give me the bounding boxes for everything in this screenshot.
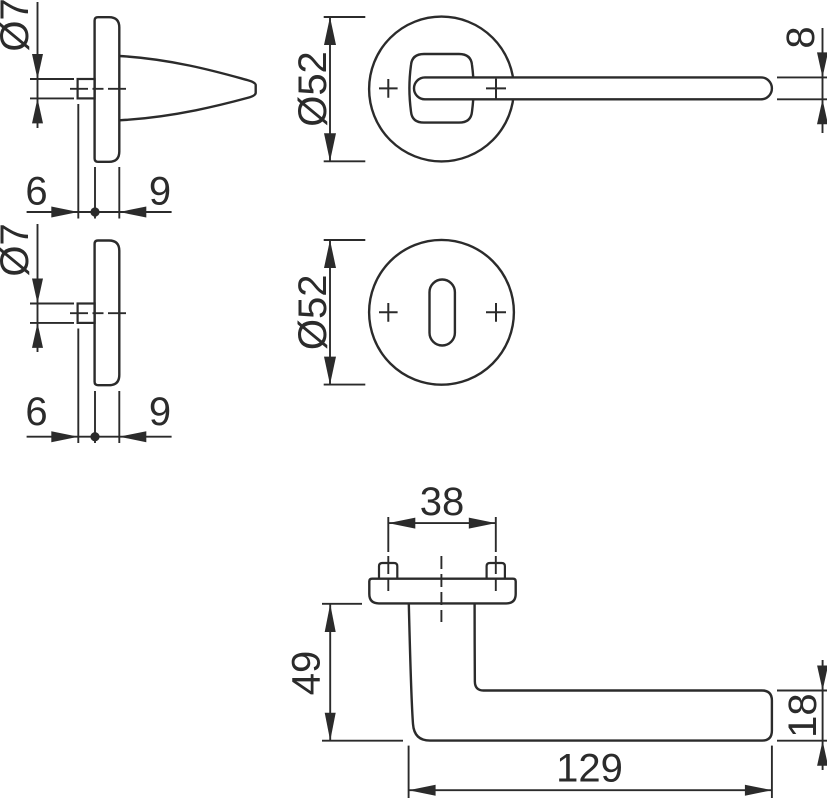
dim 6/9 (view1) junction dot [90, 207, 99, 216]
dim Ø52 (view4) dimension line [329, 240, 331, 385]
dim Ø7 (view3) dimension line [37, 224, 39, 352]
dim 49 ext line top [322, 603, 362, 605]
dim 129 dimension line [409, 789, 772, 791]
dim 6/9 (view3) junction dot [90, 432, 99, 441]
svg-text:Ø52: Ø52 [291, 274, 335, 350]
dim 6/9 (view3) ext line from spindle [77, 329, 79, 444]
dim 49 arrow up [325, 604, 336, 632]
dim 9 (view1) arrow left [119, 207, 146, 218]
dim 8 arrow up [817, 99, 827, 124]
screw axis left (dashed) [387, 517, 389, 591]
dim 8 ext line top [777, 76, 827, 78]
dim 18 arrow up [817, 741, 827, 766]
centerline (dash-dot) through spindle [70, 88, 128, 90]
dim 38 arrow left [388, 518, 415, 529]
dim 6/9 (view1) dimension line [27, 211, 172, 213]
dim Ø7 (view3) ext line bottom [30, 322, 74, 324]
svg-text:Ø7: Ø7 [0, 223, 37, 276]
screw hole cross left (view4) [379, 303, 398, 322]
key rose circle Ø52 [369, 240, 514, 385]
svg-text:129: 129 [556, 747, 623, 791]
dim Ø7 (view1) arrow up [32, 98, 43, 123]
dim 6 (view3) arrow right [51, 431, 78, 442]
dim 18 dimension line [822, 660, 824, 770]
svg-text:6: 6 [25, 390, 47, 434]
dim Ø52 (view2) arrow down [324, 133, 336, 161]
dim 6/9 (view1) ext line rosette back [94, 167, 96, 219]
screw hole cross left (view2) [379, 79, 398, 98]
keyhole slot [430, 280, 455, 346]
dim 129 ext line right [771, 746, 773, 798]
dim 49 ext line bottom [322, 740, 403, 742]
screw hole cross right on lever (view2) [486, 79, 506, 100]
dim 38 arrow right [469, 518, 496, 529]
dim Ø52 (view2) arrow up [324, 17, 336, 45]
dim 6/9 (view3) ext line rosette back [94, 391, 96, 443]
svg-text:Ø52: Ø52 [291, 51, 335, 127]
rose circle Ø52 [369, 17, 514, 162]
dim 49 arrow down [325, 713, 336, 741]
dim 6/9 (view3) dimension line [27, 436, 172, 438]
dim Ø7 (view1) extension line bottom [30, 97, 74, 99]
screw lug right [487, 563, 505, 579]
dim 18 ext line top [777, 690, 827, 692]
dim Ø52 (view2) ext line bottom [324, 160, 366, 162]
screw lug left [379, 563, 397, 579]
svg-text:9: 9 [149, 170, 171, 214]
dim Ø7 (view1) dimension line [37, 2, 39, 128]
dim Ø52 (view2) ext line top [324, 16, 366, 18]
screw hole cross right (view4) [486, 303, 506, 322]
dim Ø52 (view4) arrow down [324, 357, 336, 385]
handle neck and grip (profile) [409, 604, 772, 741]
dim Ø52 (view2) dimension line [329, 17, 331, 161]
dim 6 (view1) arrow right [51, 207, 78, 218]
dim 18 arrow down [817, 666, 827, 691]
dim 9 (view3) arrow left [119, 431, 146, 442]
dim Ø7 (view1) extension line top [30, 78, 74, 80]
centerline (dash-dot) view3 [70, 312, 128, 314]
dim 6/9 (view3) ext line rosette front [118, 391, 120, 443]
key rosette body (side) [95, 241, 120, 386]
dim 6/9 (view1) ext line from spindle [77, 104, 79, 219]
svg-text:6: 6 [25, 170, 47, 214]
dim 8 dimension line [822, 28, 824, 133]
dim Ø52 (view4) ext line bottom [324, 384, 366, 386]
dim Ø7 (view3) arrow up [32, 323, 43, 348]
svg-text:18: 18 [781, 693, 825, 738]
dim Ø7 (view3) arrow down [32, 279, 43, 304]
lever bar (front view) [414, 77, 772, 99]
dim 18 ext line bottom [777, 740, 827, 742]
key spindle square stub [78, 304, 95, 323]
dim Ø52 (view4) arrow up [324, 240, 336, 268]
dim 129 arrow left [409, 785, 436, 796]
dim 129 ext line left [408, 746, 410, 798]
dim Ø7 (view1) arrow down [32, 54, 43, 79]
svg-text:9: 9 [149, 390, 171, 434]
dim 8 ext line bottom [777, 98, 827, 100]
handle base (barrel square) [409, 54, 473, 123]
dim 8 arrow down [817, 52, 827, 77]
spindle square stub [78, 79, 95, 98]
rose plate (profile) [369, 579, 515, 604]
dim 129 arrow right [745, 785, 772, 796]
dim Ø52 (view4) ext line top [324, 239, 366, 241]
svg-text:8: 8 [779, 26, 823, 48]
handle centre axis (dash-dot) [440, 556, 442, 622]
svg-text:38: 38 [420, 480, 465, 524]
screw axis right (dashed) [495, 517, 497, 591]
svg-text:Ø7: Ø7 [0, 0, 37, 52]
handle neck (side, bullet shape) [119, 56, 255, 120]
dim 38 dimension line [388, 522, 496, 524]
dim 6/9 (view1) ext line rosette front [118, 167, 120, 219]
svg-text:49: 49 [285, 651, 329, 696]
dim 49 dimension line [329, 604, 331, 741]
rosette body (side) [95, 17, 120, 162]
dim Ø7 (view3) ext line top [30, 303, 74, 305]
